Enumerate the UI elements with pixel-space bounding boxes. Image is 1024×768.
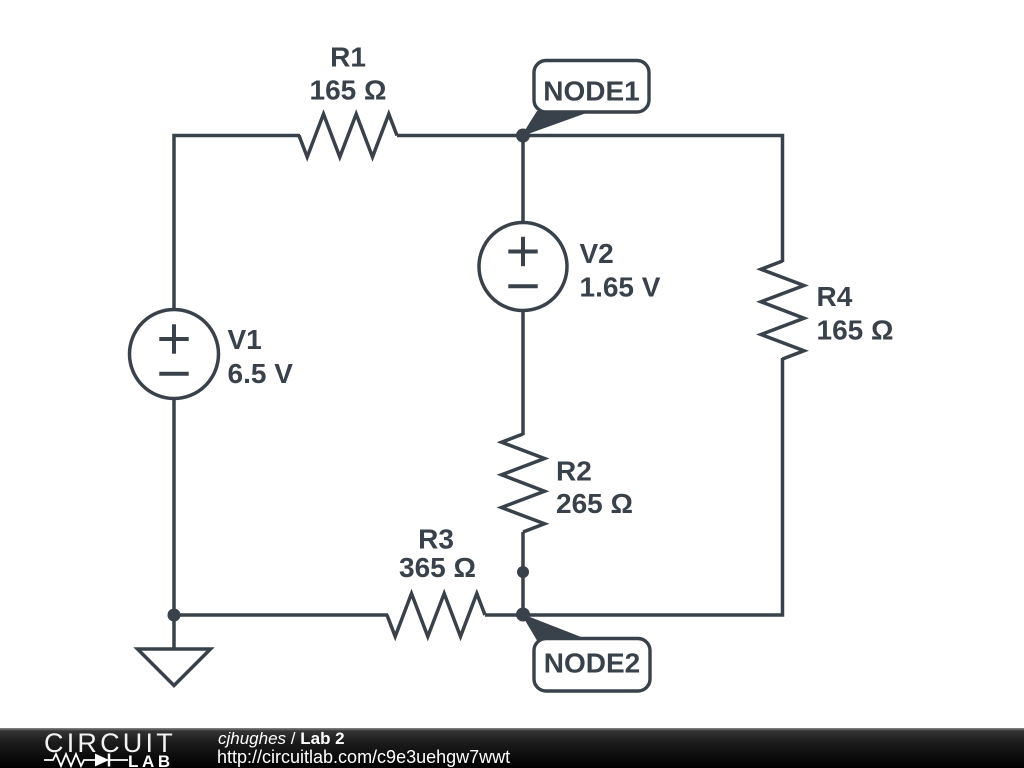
svg-text:R2: R2: [556, 456, 592, 487]
label R2: [556, 456, 592, 487]
svg-text:V1: V1: [228, 324, 262, 355]
resistor R2 zigzag: [502, 434, 545, 532]
voltage source V1: [130, 310, 219, 399]
junction dot at NODE2: [516, 608, 530, 622]
footer bar: [0, 728, 1024, 768]
label R4: [817, 281, 853, 312]
NODE2 flag text: [544, 648, 640, 679]
junction dot at ground node: [168, 609, 181, 622]
ground symbol: [138, 649, 211, 686]
wire from V2 negative terminal down to R2 top lead: [521, 309, 525, 435]
wire from V1 negative terminal down to ground node: [172, 397, 176, 615]
svg-text:165 Ω: 165 Ω: [817, 315, 894, 346]
footer title line: cjhughes / Lab 2: [218, 729, 345, 749]
svg-text:1.65 V: 1.65 V: [580, 272, 661, 303]
CircuitLab logo wordmark LAB: [128, 752, 174, 768]
svg-text:R3: R3: [418, 524, 454, 555]
voltage source V2: [479, 223, 567, 311]
value label 365 ohm for R3: [399, 552, 476, 583]
svg-text:NODE2: NODE2: [544, 648, 640, 679]
junction dot at R2 bottom terminal: [517, 566, 529, 578]
value label 165 ohm for R1: [310, 75, 387, 106]
label V2: [580, 238, 614, 269]
resistor R3 zigzag: [387, 594, 485, 637]
svg-text:365 Ω: 365 Ω: [399, 552, 476, 583]
svg-text:R1: R1: [330, 42, 366, 73]
NODE1 flag text: [543, 76, 639, 107]
wire from R3 right lead through NODE2 junction to bottom-right corner up to R4 bottom lead: [485, 358, 783, 615]
resistor R4 zigzag: [761, 261, 804, 359]
value label 6.5 V for V1: [228, 358, 294, 389]
wire from R1 right lead to NODE1 junction and on to top-right corner down to R4 top lead: [397, 136, 783, 263]
CircuitLab logo schematic squiggle (resistor and diode): [44, 752, 130, 768]
wire bottom from ground node right to R3 left lead: [174, 613, 388, 617]
label R1: [330, 42, 366, 73]
svg-text:V2: V2: [580, 238, 614, 269]
wire from V1 positive terminal up and right to R1 left lead: [174, 136, 300, 312]
resistor R1 zigzag: [299, 114, 397, 157]
svg-text:265 Ω: 265 Ω: [556, 488, 633, 519]
svg-text:NODE1: NODE1: [543, 76, 639, 107]
value label 1.65 V for V2: [580, 272, 661, 303]
NODE1 flag pointer: [521, 111, 585, 137]
NODE1 flag box: [534, 61, 649, 113]
wire from R2 bottom lead to NODE2 junction: [521, 532, 525, 615]
wire stub from ground node down to ground symbol: [172, 615, 176, 649]
CircuitLab logo wordmark CIRCUIT: [44, 728, 176, 759]
svg-text:6.5 V: 6.5 V: [228, 358, 294, 389]
label R3: [418, 524, 454, 555]
footer url line: [217, 747, 510, 768]
NODE2 flag pointer: [521, 614, 585, 641]
svg-text:R4: R4: [817, 281, 853, 312]
value label 165 ohm for R4: [817, 315, 894, 346]
value label 265 ohm for R2: [556, 488, 633, 519]
junction dot at NODE1: [516, 129, 530, 143]
NODE2 flag box: [534, 639, 650, 692]
label V1: [228, 324, 262, 355]
svg-text:165 Ω: 165 Ω: [310, 75, 387, 106]
wire from NODE1 junction down to V2 positive terminal: [521, 136, 525, 225]
